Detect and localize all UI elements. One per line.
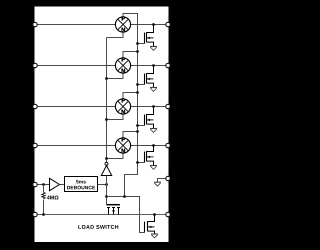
wire row 3 horizontal net CH3 xyxy=(35,106,168,108)
wire driver 2 bottom supply stub xyxy=(107,73,124,78)
wire N-bus (left vertical upper segment) xyxy=(106,38,108,163)
wire row 4 horizontal net CH4 xyxy=(35,145,168,147)
transistor Q6 body arrow xyxy=(148,226,151,228)
label P driver 3 xyxy=(122,98,125,102)
pin left EN xyxy=(33,182,37,186)
wire drain Q2 xyxy=(147,66,154,74)
wire body Q4 xyxy=(147,156,154,158)
wire body Q2 xyxy=(147,78,154,80)
driver stage 4 cross xyxy=(118,140,129,151)
label N driver 1 xyxy=(122,28,125,32)
wire EN input to buffer xyxy=(35,184,50,186)
pin left return xyxy=(33,212,37,216)
ground GND pin xyxy=(154,182,161,186)
junction drain Q4 on row net xyxy=(152,144,155,147)
wire buffer to debounce xyxy=(60,184,65,186)
wire driver 1 bottom supply stub xyxy=(107,32,124,37)
buffer A1 (input buffer) xyxy=(50,178,60,190)
junction drain Q1 on row net xyxy=(152,23,155,26)
driver stage 4 (P/N push-pull circle) xyxy=(115,138,130,153)
junction bottom stub 3 on N-bus xyxy=(105,118,108,121)
junction bottom stub 2 on N-bus xyxy=(105,77,108,80)
wire driver 3 top supply stub xyxy=(123,93,138,99)
ground Q2 source xyxy=(150,88,157,92)
pin left row 2 xyxy=(33,63,37,67)
transistor Q3 gate bar xyxy=(144,115,146,126)
transistor Q4 gate bar xyxy=(144,152,146,163)
pin right OUT xyxy=(166,212,170,216)
driver stage 2 cross xyxy=(118,60,129,71)
wire body Q6 xyxy=(148,226,155,228)
junction gate bus lands on rail xyxy=(123,195,126,198)
wire gate lead Q3 xyxy=(138,125,145,127)
wire body Q3 xyxy=(147,119,154,121)
pin left row 1 xyxy=(33,22,37,26)
driver stage 2 (P/N push-pull circle) xyxy=(115,58,130,73)
driver stage 1 cross xyxy=(118,19,129,30)
label N driver 2 xyxy=(122,69,125,73)
wire body Q1 xyxy=(147,37,154,39)
wire source Q2 xyxy=(147,83,154,87)
wire gate lead Q4 xyxy=(138,162,145,164)
transistor Q1 gate bar xyxy=(144,33,146,44)
driver stage 3 (P/N push-pull circle) xyxy=(115,99,130,114)
transistor Q1 channel bar xyxy=(146,32,148,42)
wire driver 4 top supply stub xyxy=(123,132,138,138)
junction EN / pull-down resistor xyxy=(42,183,45,186)
wire drain Q3 xyxy=(147,107,154,115)
transistor Q3 channel bar xyxy=(146,114,148,124)
wire debounce output xyxy=(98,184,107,186)
wire gate lead Q2 xyxy=(138,84,145,86)
transistor Q5 channel segments xyxy=(107,207,120,209)
wire drain Q4 xyxy=(147,146,154,152)
wire gate lead Q1 xyxy=(138,43,145,45)
transistor Q1 body arrow xyxy=(147,37,150,39)
junction gate lead Q1 on bus xyxy=(136,42,139,45)
transistor Q6 channel bar xyxy=(147,221,149,231)
inverter U2 (upward triangle) xyxy=(101,166,111,176)
transistor Q2 body arrow xyxy=(147,78,150,80)
pin left row 3 xyxy=(33,104,37,108)
junction drain Q2 on row net xyxy=(152,64,155,67)
junction drain Q3 on row net xyxy=(152,105,155,108)
label P driver 2 xyxy=(122,57,125,61)
wire source Q1 xyxy=(147,42,154,46)
wire source Q6 xyxy=(148,231,155,234)
wire row 1 horizontal net CH1 xyxy=(35,24,168,26)
wire source Q3 xyxy=(147,124,154,128)
junction gate lead Q2 on bus xyxy=(136,83,139,86)
ground Q1 source xyxy=(150,47,157,51)
label N driver 4 xyxy=(122,149,125,153)
debounce block (5ms DEBOUNCE) xyxy=(65,177,98,192)
wire driver 2 top supply stub xyxy=(123,52,138,58)
transistor Q5 (LOAD SWITCH) gate bar xyxy=(107,204,120,206)
junction gate rail on N-bus xyxy=(105,195,108,198)
wire source Q4 xyxy=(147,161,154,165)
junction resistor on return net xyxy=(42,213,45,216)
pin right row 2 xyxy=(166,63,170,67)
wire driver 4 bottom supply stub xyxy=(107,153,124,158)
transistor Q5 body arrow xyxy=(112,210,115,213)
driver stage 1 (P/N push-pull circle) xyxy=(115,17,130,32)
wire gate drive rail to discharge FET xyxy=(107,197,145,233)
label N driver 3 xyxy=(122,110,125,114)
wire bottom source/return net xyxy=(35,214,168,216)
junction top stub 4 on gate bus xyxy=(136,130,139,133)
wire drain Q1 xyxy=(147,25,154,33)
wire resistor top lead xyxy=(43,185,45,193)
transistor Q6 gate bar xyxy=(144,222,146,233)
driver stage 3 cross xyxy=(118,101,129,112)
transistor Q2 channel bar xyxy=(146,73,148,83)
transistor Q5 leads xyxy=(109,208,119,215)
pin right GND xyxy=(166,176,170,180)
wire resistor bottom lead xyxy=(43,200,45,215)
pin right row 1 xyxy=(166,22,170,26)
ground Q4 source xyxy=(150,166,157,170)
wire row 2 horizontal net CH2 xyxy=(35,65,168,67)
label P driver 1 xyxy=(122,16,125,20)
junction top stub 2 on gate bus xyxy=(136,50,139,53)
pin left row 4 xyxy=(33,143,37,147)
wire GND pin to ground symbol xyxy=(158,179,169,183)
label 4MΩ xyxy=(47,196,59,200)
transistor Q2 gate bar xyxy=(144,74,146,85)
wire drain Q6 xyxy=(148,215,155,222)
transistor Q4 body arrow xyxy=(147,156,150,158)
pin right row 4 xyxy=(166,143,170,147)
resistor 4MΩ xyxy=(42,192,45,199)
transistor Q3 body arrow xyxy=(147,119,150,121)
junction gate lead Q4 on bus xyxy=(136,161,139,164)
label LOAD SWITCH xyxy=(78,225,118,229)
inverter U2 bubble xyxy=(105,162,108,165)
wire N-bus lower segment to load switch gate xyxy=(106,176,108,205)
junction gate lead Q3 on bus xyxy=(136,124,139,127)
transistor Q4 channel bar xyxy=(146,151,148,161)
junction bottom stub 4 on N-bus xyxy=(105,157,108,160)
ground Q3 source xyxy=(150,129,157,133)
label DEBOUNCE xyxy=(67,186,95,190)
junction debounce output on N-bus xyxy=(105,183,108,186)
label 5ms xyxy=(76,180,86,183)
pin right row 3 xyxy=(166,104,170,108)
junction Q6 drain on return net xyxy=(153,213,156,216)
IC body (white panel) xyxy=(35,7,169,243)
ground Q6 source xyxy=(151,234,158,238)
wire gate bus (right vertical with jog to gate rail) xyxy=(123,14,138,197)
wire driver 3 bottom supply stub xyxy=(107,114,124,119)
label P driver 4 xyxy=(122,137,125,141)
junction top stub 3 on gate bus xyxy=(136,91,139,94)
